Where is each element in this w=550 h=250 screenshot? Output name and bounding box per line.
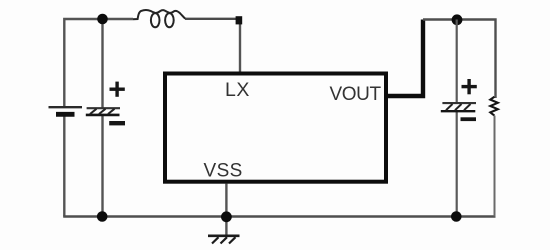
battery BT1 (49, 107, 83, 114)
node VSS junction dot (221, 211, 232, 222)
wire VSS vertical (225, 184, 227, 236)
wire inductor to LX corner (185, 18, 240, 20)
svg-text:VOUT: VOUT (330, 84, 382, 105)
inductor L1 (133, 10, 185, 27)
wire top-left rail (64, 19, 133, 108)
wire bottom rail (63, 215, 495, 218)
wire right capacitor bottom (456, 111, 458, 217)
wire resistor bottom (494, 116, 496, 217)
ground (208, 236, 240, 244)
capacitor C1 minus sign (109, 121, 125, 125)
node junction dot top-right (452, 14, 463, 25)
wire LX vertical (239, 19, 241, 73)
capacitor C2 plus sign (462, 79, 477, 94)
capacitor C1 plus sign (110, 82, 125, 97)
wire top-right rail (423, 20, 496, 99)
svg-text:VSS: VSS (204, 161, 243, 182)
wire battery bottom (63, 117, 65, 217)
capacitor C2 (output, polarized) (441, 103, 476, 111)
capacitor C1 (input, polarized) (86, 108, 120, 115)
svg-text:LX: LX (225, 79, 250, 101)
capacitor C2 minus sign (461, 117, 477, 121)
junction corner blob at LX wire (236, 16, 243, 24)
resistor R1 (load) (490, 97, 498, 116)
wire right capacitor top (456, 20, 458, 104)
wire VOUT thick (387, 20, 423, 97)
op IC U1 box (165, 74, 386, 182)
wire left capacitor bottom (101, 116, 103, 217)
node junction dot bottom-right (451, 211, 462, 222)
node A junction dot top-left (97, 14, 108, 25)
node junction dot bottom-left (97, 211, 108, 222)
wire left capacitor top (101, 19, 103, 108)
